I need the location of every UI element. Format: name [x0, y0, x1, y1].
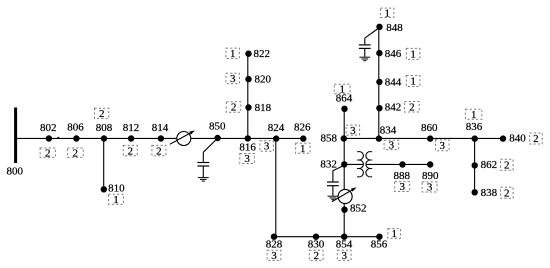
svg-text:3: 3	[264, 141, 270, 153]
svg-text:828: 828	[266, 239, 283, 251]
svg-text:822: 822	[254, 48, 271, 60]
svg-text:2: 2	[409, 101, 415, 113]
svg-text:1: 1	[471, 109, 477, 121]
svg-text:814: 814	[152, 122, 169, 134]
svg-text:856: 856	[371, 239, 388, 251]
svg-text:824: 824	[268, 122, 285, 134]
svg-text:2: 2	[231, 102, 237, 114]
svg-text:806: 806	[67, 122, 84, 134]
svg-text:844: 844	[385, 77, 402, 89]
svg-text:800: 800	[7, 166, 24, 178]
svg-text:812: 812	[123, 122, 140, 134]
svg-text:1: 1	[230, 48, 236, 60]
svg-text:840: 840	[509, 133, 526, 145]
svg-text:1: 1	[113, 194, 119, 206]
svg-text:1: 1	[339, 84, 345, 96]
svg-text:2: 2	[156, 145, 162, 157]
svg-text:816: 816	[239, 142, 256, 154]
svg-text:890: 890	[422, 170, 439, 182]
svg-text:3: 3	[244, 153, 250, 165]
svg-text:2: 2	[504, 159, 510, 171]
svg-text:888: 888	[393, 170, 410, 182]
svg-text:3: 3	[399, 181, 405, 193]
svg-text:818: 818	[255, 102, 272, 114]
svg-text:836: 836	[466, 121, 483, 133]
svg-text:802: 802	[40, 122, 57, 134]
svg-text:1: 1	[384, 8, 390, 20]
svg-text:842: 842	[385, 102, 402, 114]
svg-text:858: 858	[321, 133, 338, 145]
svg-text:2: 2	[99, 108, 105, 120]
svg-text:3: 3	[341, 250, 347, 262]
svg-text:1: 1	[410, 49, 416, 61]
svg-text:1: 1	[410, 76, 416, 88]
svg-text:846: 846	[385, 48, 402, 60]
svg-text:2: 2	[73, 147, 79, 159]
svg-text:3: 3	[427, 182, 433, 194]
svg-text:852: 852	[350, 203, 367, 215]
svg-text:860: 860	[421, 122, 438, 134]
svg-text:1: 1	[300, 143, 306, 155]
svg-text:834: 834	[380, 125, 397, 137]
svg-text:810: 810	[108, 182, 125, 194]
svg-text:3: 3	[389, 140, 395, 152]
svg-text:2: 2	[504, 188, 510, 200]
svg-text:2: 2	[128, 145, 134, 157]
svg-text:3: 3	[230, 73, 236, 85]
svg-text:830: 830	[308, 239, 325, 251]
svg-text:832: 832	[320, 159, 337, 171]
svg-text:848: 848	[386, 22, 403, 34]
svg-text:820: 820	[254, 74, 271, 86]
svg-text:3: 3	[350, 125, 356, 137]
svg-text:2: 2	[533, 133, 539, 145]
svg-text:862: 862	[481, 159, 498, 171]
svg-text:854: 854	[336, 239, 353, 251]
svg-text:826: 826	[294, 122, 311, 134]
svg-text:808: 808	[96, 122, 113, 134]
svg-text:1: 1	[391, 228, 397, 240]
svg-text:2: 2	[313, 250, 319, 262]
svg-text:3: 3	[271, 250, 277, 262]
svg-text:2: 2	[45, 147, 51, 159]
svg-text:850: 850	[209, 121, 226, 133]
svg-text:838: 838	[481, 187, 498, 199]
svg-text:3: 3	[440, 140, 446, 152]
